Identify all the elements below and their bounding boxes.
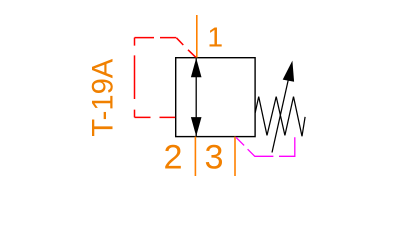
svg-text:1: 1 [207, 20, 223, 52]
svg-text:3: 3 [204, 138, 223, 176]
svg-text:2: 2 [163, 138, 182, 176]
flow arrowhead bottom [191, 117, 202, 136]
port 2 line [194, 137, 196, 176]
pilot line red dashed top horizontal [135, 37, 177, 39]
drain line magenta dashed diagonal [236, 137, 274, 156]
svg-text:T-19A: T-19A [88, 58, 120, 136]
spring [255, 97, 305, 137]
port 1 line [196, 15, 198, 58]
pilot line red dashed diagonal [176, 38, 195, 58]
port 3 line [234, 137, 236, 176]
adjustment arrow shaft [272, 80, 288, 153]
drain line magenta dashed horizontal and vertical [279, 137, 295, 156]
flow arrow shaft [195, 59, 197, 137]
flow arrowhead top [191, 58, 202, 77]
pilot line red dashed bottom horizontal [135, 116, 176, 118]
valve body box [176, 58, 255, 137]
pilot line red dashed left vertical [134, 38, 136, 118]
adjustment arrowhead [283, 61, 294, 82]
